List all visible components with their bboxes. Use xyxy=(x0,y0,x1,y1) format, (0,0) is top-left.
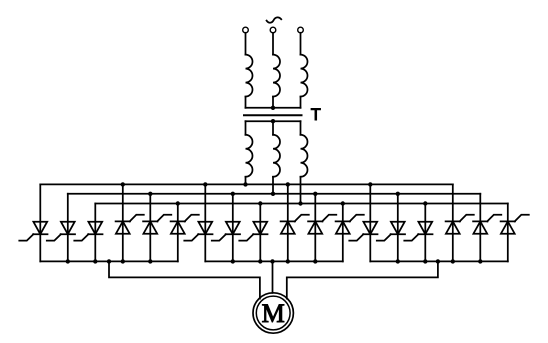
junction dot bus A / VT4 xyxy=(121,182,125,186)
junction dot common line / VT2 xyxy=(66,259,70,263)
thyristor VT17 xyxy=(473,221,487,233)
wire bus C to thyristor VT12 xyxy=(342,204,344,262)
thyristor VT5 xyxy=(143,221,157,233)
thyristor VT1 xyxy=(33,222,47,235)
wire bus A to thyristor VT10 xyxy=(287,184,289,261)
wire bus B to thyristor VT5 xyxy=(149,194,151,262)
wire bus B to thyristor VT11 xyxy=(314,194,316,262)
wire bus C to thyristor VT15 xyxy=(424,204,426,262)
secondary windings common connector xyxy=(246,120,301,122)
input terminal 2 xyxy=(270,27,276,33)
junction dot bus A / secondary 1 xyxy=(243,182,247,186)
junction dot common line / VT11 xyxy=(313,259,317,263)
junction dot common line / VT4 xyxy=(121,259,125,263)
junction dot secondary common xyxy=(271,119,275,123)
thyristor VT2 xyxy=(61,222,75,235)
junction dot common line / VT16 xyxy=(451,259,455,263)
wire tap groups 1-2 to motor (left lead) xyxy=(109,261,260,298)
junction dot common line / VT3 xyxy=(93,259,97,263)
wire bus C to thyristor VT6 xyxy=(177,204,179,262)
wire bus B to thyristor VT8 xyxy=(232,194,234,262)
wire bus A to thyristor VT7 xyxy=(204,184,206,261)
junction dot bus B / VT14 xyxy=(396,192,400,196)
thyristor VT14 xyxy=(391,222,405,235)
transformer T secondary winding 3 xyxy=(300,121,302,135)
transformer T core xyxy=(244,114,302,116)
thyristor VT12 xyxy=(336,221,350,233)
junction dot bus B / secondary 2 xyxy=(271,192,275,196)
junction dot bus B / VT5 xyxy=(148,192,152,196)
transformer T primary winding 2 xyxy=(273,55,280,97)
wire bus B to thyristor VT14 xyxy=(397,194,399,262)
junction dot common line / VT5 xyxy=(148,259,152,263)
junction dot common line / VT14 xyxy=(396,259,400,263)
transformer T secondary winding 1 xyxy=(245,121,247,135)
transformer T primary winding 3 xyxy=(301,55,308,97)
junction dot tap to motor phase 2 xyxy=(270,259,274,263)
transformer T primary winding 1 xyxy=(246,55,253,97)
wire bus C to thyristor VT3 xyxy=(94,204,96,262)
thyristor VT15 xyxy=(418,222,432,235)
wire bus C to thyristor VT9 xyxy=(259,204,261,262)
wire tap groups 5-6 to motor (right lead) xyxy=(287,261,438,298)
wire secondary 3 to bus C xyxy=(300,177,302,204)
motor M inner circle xyxy=(256,296,290,330)
junction dot bus C / VT12 xyxy=(341,201,345,205)
common output line groups 1-2 xyxy=(40,260,178,262)
phase bus C xyxy=(95,203,508,205)
junction dot bus C / VT15 xyxy=(423,201,427,205)
wire bus A to thyristor VT1 xyxy=(39,184,41,261)
wire bus C to thyristor VT18 xyxy=(507,204,509,262)
wire bus A to thyristor VT13 xyxy=(369,184,371,261)
junction dot common line / VT15 xyxy=(423,259,427,263)
thyristor VT7 xyxy=(198,222,212,235)
primary windings common connector xyxy=(246,107,301,109)
thyristor VT18 xyxy=(501,221,515,233)
motor M outer circle xyxy=(253,293,293,333)
junction dot common line / VT8 xyxy=(231,259,235,263)
junction dot tap to motor phase 1 xyxy=(107,259,111,263)
junction dot common line / VT10 xyxy=(286,259,290,263)
svg-text:M: M xyxy=(262,299,285,328)
junction dot bus C / VT9 xyxy=(258,201,262,205)
junction dot common line / VT17 xyxy=(478,259,482,263)
junction dot bus A / VT10 xyxy=(286,182,290,186)
common output line groups 3-4 xyxy=(205,260,342,262)
thyristor VT9 xyxy=(253,222,267,235)
junction dot bus B / VT11 xyxy=(313,192,317,196)
wire bus B to thyristor VT2 xyxy=(67,194,69,262)
input terminal 3 xyxy=(298,27,304,33)
wire secondary 1 to bus A xyxy=(245,177,247,185)
thyristor VT4 xyxy=(116,221,130,233)
common output line groups 5-6 xyxy=(370,260,508,262)
junction dot bus B / VT8 xyxy=(231,192,235,196)
junction dot tap to motor phase 3 xyxy=(436,259,440,263)
thyristor VT13 xyxy=(363,222,377,235)
junction dot bus A / VT13 xyxy=(368,182,372,186)
thyristor VT8 xyxy=(226,222,240,235)
wire terminal 1 to primary winding 1 xyxy=(245,33,247,55)
thyristor VT10 xyxy=(281,221,295,233)
input terminal 1 xyxy=(243,27,249,33)
wire bus A to thyristor VT4 xyxy=(122,184,124,261)
wire tap groups 3-4 to motor (middle lead) xyxy=(272,261,274,293)
wire bus B to thyristor VT17 xyxy=(479,194,481,262)
thyristor VT3 xyxy=(88,222,102,235)
phase bus B xyxy=(68,193,481,195)
junction dot bus A / VT7 xyxy=(203,182,207,186)
junction dot primary common xyxy=(271,106,275,110)
wire terminal 2 to primary winding 2 xyxy=(272,33,274,55)
junction dot bus C / secondary 3 xyxy=(298,201,302,205)
transformer T secondary winding 2 xyxy=(272,121,274,135)
wire secondary 2 to bus B xyxy=(272,177,274,194)
junction dot bus C / VT6 xyxy=(176,201,180,205)
thyristor VT6 xyxy=(171,221,185,233)
thyristor VT11 xyxy=(308,221,322,233)
svg-text:T: T xyxy=(311,106,321,124)
AC source symbol (sine squiggle) xyxy=(267,17,282,22)
thyristor VT16 xyxy=(446,221,460,233)
wire terminal 3 to primary winding 3 xyxy=(300,33,302,55)
phase bus A xyxy=(40,183,453,185)
wire bus A to thyristor VT16 xyxy=(452,184,454,261)
junction dot common line / VT9 xyxy=(258,259,262,263)
